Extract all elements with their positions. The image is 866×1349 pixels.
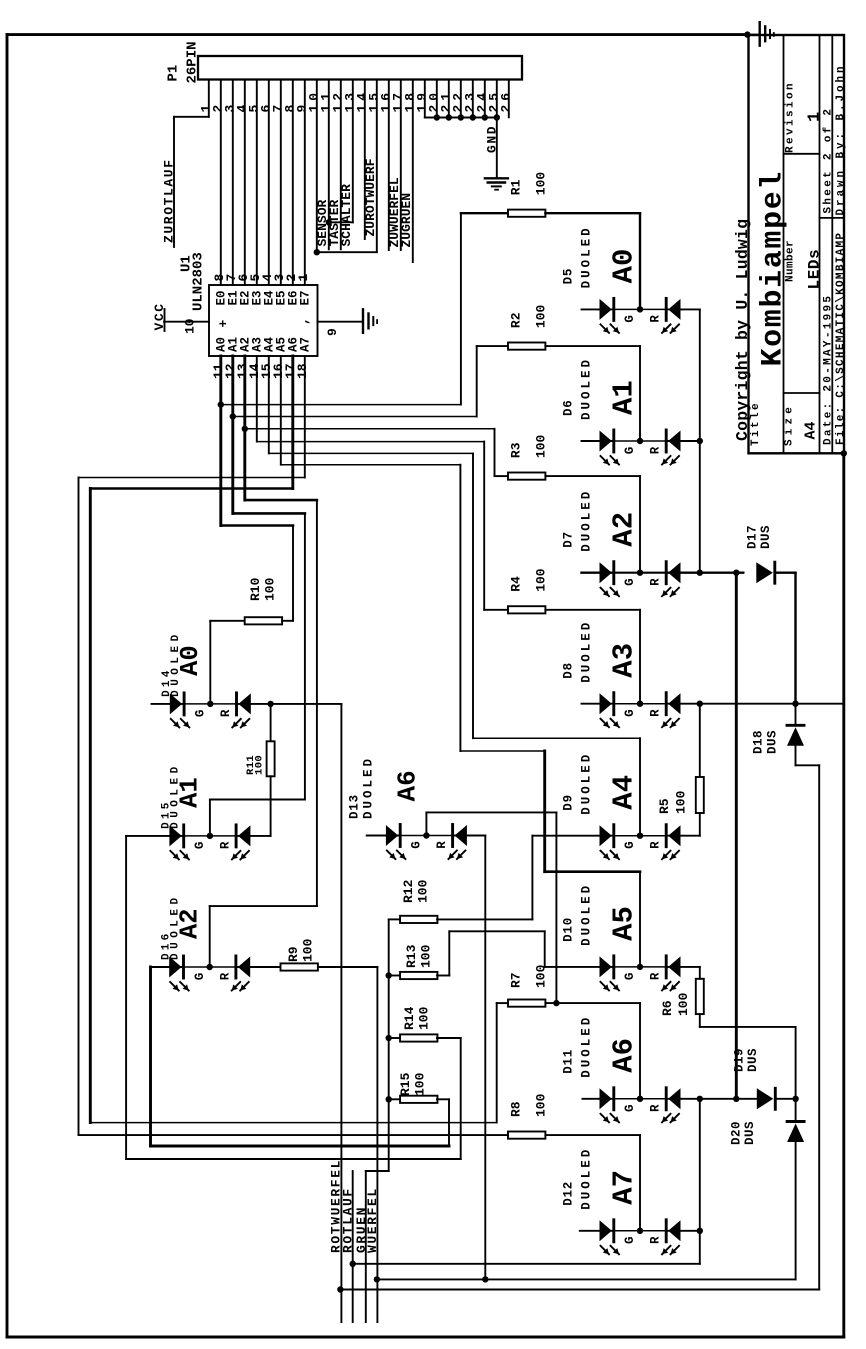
svg-text:R: R [218,972,232,980]
svg-text:G: G [623,1236,637,1244]
svg-text:A6: A6 [393,770,423,801]
LED D8 left diode (green) [600,693,612,714]
svg-text:R12: R12 [401,879,416,903]
wire P1 pin 18 stub [412,80,414,263]
LED D14 right diode (red) [235,693,238,715]
wire D16 west line east run [151,1145,450,1148]
LED D12 right diode (red) [665,1220,668,1242]
svg-text:A5: A5 [608,906,641,941]
svg-text:R2: R2 [509,312,524,328]
resistor R2 body [508,343,545,350]
resistor R13 body [400,972,437,979]
svg-text:Drawn By: B.John: Drawn By: B.John [835,63,847,215]
wire R2 right lead to column [545,345,640,347]
LED D13 red emission arrows [448,851,457,860]
wire P1 pin 8 to ULN input [292,80,294,286]
svg-text:A2: A2 [608,512,641,547]
svg-text:R: R [219,841,233,849]
wire P1 pin 9 to ULN input [304,80,306,286]
svg-text:100: 100 [534,568,549,592]
wire P1 pin 26 stub [508,80,510,118]
LED D14 green emission arrows [171,719,180,728]
node D8 center junction [637,701,643,707]
wire R2 left lead [477,345,508,347]
LED D5 right diode (red) [665,298,668,320]
node GND bus pin 20 [434,114,440,120]
resistor R6 body [696,979,704,1014]
wire D19 cathode [777,1098,796,1100]
svg-text:100: 100 [674,790,689,814]
wire P1 pin 5 to ULN input [256,80,258,286]
wire U1 output column A5 [280,356,282,465]
wire D11 anode stub [582,1098,613,1100]
wire U1 output column A3 [256,356,258,442]
wire rail D5-D7 segment [699,309,701,572]
LED D5 green emission arrows [601,324,610,333]
wire net A3 to R4 [257,441,484,443]
svg-text:D8: D8 [562,662,576,679]
wire R2 output drop [639,346,641,441]
svg-text:Sheet 2 of 2: Sheet 2 of 2 [823,107,835,214]
svg-text:18: 18 [295,363,310,379]
node chain R13 junction [386,972,392,978]
svg-text:DUOLED: DUOLED [580,357,594,420]
wire D7 anode stub [582,572,614,574]
svg-text:A2: A2 [175,908,204,939]
wire R11 bottom lead [270,776,272,836]
svg-text:DUOLED: DUOLED [580,883,594,946]
node D14/R11 junction [267,701,273,707]
wire R6 bottom jog [699,1014,701,1027]
wire P1 pin 6 to ULN input [268,80,270,286]
svg-text:ZUGRUEN: ZUGRUEN [399,193,414,248]
svg-text:R15: R15 [398,1072,413,1096]
wire P1 pin 17 ZUGRUEN stub [400,80,402,251]
ground P1 GND symbol [485,177,508,179]
svg-text:100: 100 [534,172,549,196]
resistor R11 body [267,741,275,776]
diode D19 DUS [757,1088,774,1109]
svg-text:9: 9 [325,328,340,336]
LED D13 green emission arrows [387,851,396,860]
resistor R14 body [400,1034,437,1041]
wire U1 output column A0 [219,356,222,526]
wire R7 left lead [497,1002,508,1004]
wire R6 top lead [699,967,701,979]
resistor R9 body [281,963,318,970]
wire D16 right lead to R9 [236,966,281,968]
node GND bus pin 24 [482,114,488,120]
svg-text:ZUROTWUERF: ZUROTWUERF [363,158,378,236]
svg-text:D18: D18 [752,730,766,754]
wire R9 right lead [318,966,378,968]
node D12 center junction [637,1228,643,1234]
svg-text:DUOLED: DUOLED [362,756,376,819]
wire D8 right to border GND [666,703,844,705]
svg-text:R: R [649,315,663,323]
node R7/D13 junction [553,1000,559,1006]
svg-text:R: R [435,841,449,849]
LED D6 right diode (red) [665,430,668,452]
LED D7 red emission arrows [662,588,671,597]
svg-text:D13: D13 [348,794,362,819]
svg-text:DUS: DUS [746,1048,760,1072]
LED D13 left diode (green) [386,825,398,846]
wire D10 right to R6 [666,966,700,968]
wire D6 right to rail [666,440,700,442]
node chain R15 junction [386,1096,392,1102]
svg-text:DUOLED: DUOLED [580,1015,594,1078]
wire R3 left lead [495,475,509,477]
wire D18 drop to ROTWUERFEL bus [818,765,820,1289]
wire D14 right junctions [237,703,342,705]
title block divider Size column [819,35,821,453]
svg-text:100: 100 [413,1072,428,1096]
wire D12 right to rail [666,1230,700,1232]
wire P1 pin 22 to GND bus [460,80,462,118]
wire U1 output column A6 [291,356,294,489]
node D11 thick-column junction [733,1096,739,1102]
LED D10 center wire [614,966,666,968]
node A1 branch [230,413,236,419]
wire P1 pin 2 to ULN input [220,80,222,286]
wire ROTLAUF bus [353,1263,700,1265]
wire top GND rail [7,33,749,36]
svg-text:Size: Size [784,403,796,446]
svg-text:100: 100 [676,992,691,1016]
LED D5 left diode (green) [600,299,612,320]
svg-text:R10: R10 [248,577,263,601]
svg-text:GND: GND [484,125,499,153]
svg-text:DUOLED: DUOLED [580,1147,594,1210]
wire D16 anode west leg [151,966,184,968]
resistor R4 body [508,606,545,613]
svg-text:D17: D17 [746,525,760,549]
node D11 center junction [637,1096,643,1102]
svg-text:File: C:\SCHEMATIC\KOMBIAMP: File: C:\SCHEMATIC\KOMBIAMP [835,232,847,445]
LED D14 center wire [184,703,236,705]
wire R15 left lead [389,1098,401,1100]
svg-text:G: G [623,709,637,717]
wire D15 west line east run [126,1158,461,1160]
svg-text:D5: D5 [562,268,576,285]
wire D18 anode stub [795,704,797,726]
wire R1 left lead [461,212,508,214]
wire D7 right to D17 [666,572,743,574]
LED D7 center wire [614,572,666,574]
wire P1 pin 24 to GND bus [484,80,486,118]
svg-text:D10: D10 [562,917,576,942]
wire net A7 west run [79,477,305,479]
svg-text:Title: Title [750,401,762,446]
wire GND stub down [496,118,498,179]
wire R12 right lead to D9 anode [437,918,532,920]
svg-text:ULN2803: ULN2803 [191,252,207,311]
LED D9 center wire [614,835,666,837]
wire net A4 staircase to D9 [269,452,473,454]
ground U1 pin 9 symbol [362,309,364,333]
node chain R14 junction [386,1035,392,1041]
wire D13 right drop to WUERFEL bus [453,835,486,837]
LED D6 left diode (green) [600,431,612,452]
svg-text:D9: D9 [562,794,576,811]
svg-text:R: R [649,446,663,454]
wire rail R5 to D9 [699,813,701,836]
wire P1 pin 1 lead [208,80,210,117]
LED D8 right diode (red) [665,693,668,715]
svg-text:R: R [649,1236,663,1244]
LED D10 green emission arrows [601,982,610,991]
wire R13 jog to D10 anode [437,975,449,977]
node pin10/pin15 junction [314,249,320,255]
svg-text:R: R [219,709,233,717]
svg-text:100: 100 [419,944,434,968]
LED D16 left diode (green) [169,957,181,978]
wire P1 pin 16 ZUWUERFEL stub [388,80,390,251]
LED D13 center wire [400,835,452,837]
svg-text:,: , [296,317,311,325]
wire D20 to WUERFEL bus [795,1142,797,1279]
svg-text:DUS: DUS [759,525,773,549]
node D6 center junction [637,438,643,444]
svg-text:DUOLED: DUOLED [580,620,594,683]
wire U1 output column A1 [231,356,234,513]
node rail D12 junction [697,1228,703,1234]
LED D13 right diode (red) [451,825,454,847]
svg-text:100: 100 [254,755,266,775]
svg-text:SCHALTER: SCHALTER [339,184,354,247]
svg-text:ZUROTLAUF: ZUROTLAUF [162,158,177,243]
svg-text:R3: R3 [509,442,524,458]
node D7 center junction [637,570,643,576]
LED D15 left diode (green) [169,825,181,846]
wire R8 output drop to D12 [639,1135,641,1231]
wire P1 pin 21 to GND bus [448,80,450,118]
wire R4 right lead to column [545,609,640,611]
resistor R3 body [508,473,545,480]
wire net A0 to R1 [221,404,461,406]
wire P1 pin 20 to GND bus [436,80,438,118]
node WUERFEL/D13 junction [482,1276,488,1282]
wire rail D8 to R5 [699,704,701,777]
svg-text:A0: A0 [608,249,641,284]
svg-text:Date: 20-MAY-1995: Date: 20-MAY-1995 [823,294,835,445]
svg-text:DUOLED: DUOLED [580,752,594,815]
wire net ZUROTLAUF elbow [174,116,209,118]
wire P1 pin 11 TASTER stub [328,80,330,250]
svg-text:R: R [649,709,663,717]
svg-text:R: R [649,841,663,849]
wire GRUEN jog [366,1170,389,1172]
wire D19 junction to D20 [795,1099,797,1122]
wire R12 left lead [389,918,401,920]
wire P1 pin 19 to GND bus [424,80,426,118]
wire net A1 jog to D15 [233,512,305,515]
svg-text:G: G [623,447,637,455]
svg-text:100: 100 [534,304,549,328]
diode D17 DUS [756,562,773,583]
svg-text:A1: A1 [608,380,641,415]
wire D15 right lead to R11 [236,835,271,837]
wire P1 pin 14 ZUROTWUERF stub [364,80,366,240]
LED D16 red emission arrows [232,982,241,991]
svg-text:DUOLED: DUOLED [580,489,594,552]
connector P1 body [198,56,522,80]
LED D10 red emission arrows [662,982,671,991]
svg-text:26PIN: 26PIN [185,41,201,83]
svg-text:A4: A4 [803,421,820,439]
wire D13 anode stub [367,835,401,837]
svg-text:G: G [194,710,208,718]
svg-text:Revision: Revision [785,81,797,153]
node A0 branch [218,401,224,407]
wire D11 right to D19 [666,1098,757,1100]
resistor R8 body [508,1132,545,1139]
svg-text:P1: P1 [166,65,182,82]
LED D11 right diode (red) [665,1088,668,1110]
resistor R12 body [400,916,437,923]
svg-text:G: G [623,315,637,323]
svg-text:R14: R14 [402,1006,417,1030]
wire bottom border rail [7,1336,844,1339]
svg-text:100: 100 [263,577,278,601]
svg-text:R: R [649,1104,663,1112]
svg-text:A7: A7 [298,337,312,352]
title block divider Sheet/Date [820,217,845,219]
wire rail D11 to D12 [699,1099,701,1231]
LED D6 red emission arrows [662,456,671,465]
wire D8 anode stub [582,703,614,705]
title block divider Number/Size [784,392,820,394]
svg-text:VCC: VCC [152,302,167,330]
svg-text:Number: Number [785,240,797,282]
wire GND symbol stub top [747,34,759,36]
svg-text:G: G [623,841,637,849]
resistor R1 body [508,210,545,217]
LED D6 green emission arrows [601,456,610,465]
wire R8 right lead [545,1134,640,1136]
svg-text:DUOLED: DUOLED [580,225,594,288]
resistor R10 body [245,617,282,624]
wire left border rail [6,35,9,1337]
svg-text:R1: R1 [509,179,524,195]
wire R1 output drop [639,213,641,309]
title block divider Revision/Number [784,153,820,155]
wire P1 pin 13 jumper to pin 11 [352,80,354,223]
wire WUERFEL bus [377,1278,796,1280]
svg-text:G: G [623,1104,637,1112]
svg-text:R7: R7 [509,972,524,988]
svg-text:10: 10 [183,318,198,334]
wire D15 anode west leg [126,835,184,837]
node D16 center junction [207,964,213,970]
wire net A6 west run [90,487,292,490]
svg-text:100: 100 [534,1093,549,1117]
svg-text:G: G [623,578,637,586]
wire R4 left lead [484,609,508,611]
node WUERFEL bus junction [374,1276,380,1282]
svg-text:G: G [193,842,207,850]
svg-text:D19: D19 [733,1048,747,1072]
node GND bus pin 21 [446,114,452,120]
wire R11 top lead [270,704,272,741]
svg-text:R5: R5 [657,798,672,814]
svg-text:100: 100 [301,938,316,962]
wire P1 pin 23 to GND bus [472,80,474,118]
LED D11 left diode (green) [600,1088,612,1109]
svg-text:G: G [410,841,424,849]
node GND bus pin 23 [470,114,476,120]
wire P1 pin 12 SCHALTER stub [340,80,342,250]
node D9 center junction [637,833,643,839]
title block divider Title column [783,35,785,453]
svg-text:+: + [216,320,231,328]
svg-text:D11: D11 [562,1049,576,1074]
svg-text:D12: D12 [562,1181,576,1206]
title block divider Date/File rows [831,35,833,453]
node D8/D18 junction [792,701,798,707]
svg-text:100: 100 [534,964,549,988]
wire D16 feed from A2 jog [209,906,211,967]
wire R1 right lead to column [545,212,640,214]
LED D11 red emission arrows [662,1114,671,1123]
svg-text:R13: R13 [404,944,419,968]
wire D5 anode stub [582,308,614,310]
svg-text:A4: A4 [608,775,641,810]
wire D15 feed from A1 jog [209,800,211,836]
wire net A0 jog to R10 [221,524,293,527]
LED D9 green emission arrows [601,851,610,860]
LED D9 left diode (green) [600,825,612,846]
wire R10 right lead [282,620,293,622]
resistor R15 body [400,1096,437,1103]
wire P1 pin 10 SENSOR stub [316,80,318,250]
wire P1 pin 7 to ULN input [280,80,282,286]
node D14 center junction [207,701,213,707]
LED D7 left diode (green) [600,562,612,583]
wire D17 drop to D8 row [794,573,796,704]
wire D9 right to rail corner [666,835,700,837]
LED D10 left diode (green) [600,956,612,977]
LED D15 center wire [184,835,236,837]
wire R3 output drop [639,476,641,573]
svg-text:R8: R8 [509,1101,524,1117]
svg-text:D7: D7 [562,531,576,548]
wire net A2 jog to D16 [245,499,317,502]
LED D12 red emission arrows [662,1246,671,1255]
diode D20 DUS [787,1120,804,1123]
wire R14 drop to D15 west line [437,1037,461,1039]
LED D14 left diode (green) [170,693,182,714]
svg-text:E7: E7 [298,290,312,305]
wire P1 pin 3 to ULN input [232,80,234,286]
wire D17 cathode to drop [777,572,796,574]
LED D16 right diode (red) [234,956,237,978]
wire GND bus [425,117,497,119]
wire net GRUEN stub [365,1171,367,1322]
LED D7 right diode (red) [665,562,668,584]
svg-text:R6: R6 [660,1000,675,1016]
svg-text:100: 100 [417,1006,432,1030]
LED D12 green emission arrows [601,1246,610,1255]
svg-text:DUS: DUS [766,730,780,754]
svg-text:WUERFEL: WUERFEL [365,1187,380,1253]
wire D6 anode stub [582,440,614,442]
wire VCC to U1 pin 10 [164,321,209,323]
node ROTWUERFEL bus junction [337,1286,343,1292]
node rail D11 junction [697,1096,703,1102]
LED D15 red emission arrows [232,851,241,860]
